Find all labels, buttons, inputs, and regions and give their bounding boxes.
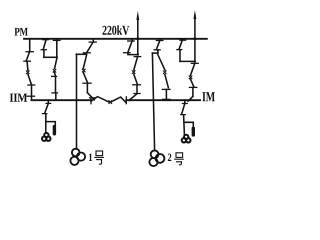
TV2 branch wire to arrester bbox=[184, 122, 193, 126]
main bus section IM bbox=[126, 99, 200, 101]
feeder W1 node junction bbox=[137, 53, 139, 55]
transformer T2 winding 2 bbox=[149, 158, 157, 166]
feeder W2 wire down bbox=[179, 50, 181, 62]
feeder W2 breaker blade bbox=[191, 64, 195, 76]
T1 landing tick bbox=[90, 97, 96, 99]
feeder W2 wire to node bbox=[180, 60, 195, 62]
T2 bay node tick bbox=[154, 49, 160, 51]
feeder W2 breaker x-mark bbox=[189, 76, 192, 79]
feeder W2 breaker tick bbox=[191, 62, 198, 64]
T2 wire to bus IM bbox=[165, 90, 167, 101]
bay B lower tick bbox=[52, 92, 58, 94]
transformer T2 winding 1 bbox=[151, 150, 159, 158]
T2 feeder wire bbox=[152, 53, 154, 150]
feeder W2 node junction bbox=[194, 60, 196, 62]
transformer T1 winding 1 bbox=[72, 149, 80, 157]
label 2 hao: digit 2 bbox=[168, 154, 171, 161]
bay A bus-side tick bbox=[27, 95, 34, 97]
feeder W2 breaker lower blade bbox=[191, 79, 195, 87]
feeder W1 wire bbox=[136, 85, 138, 94]
arrester F1 body bbox=[53, 125, 56, 136]
TV1 lower tick bbox=[42, 113, 47, 115]
bay B wire to bus IIM bbox=[55, 93, 57, 100]
feeder W1 wire bbox=[137, 16, 139, 55]
bay A lower tick bbox=[24, 60, 31, 62]
voltage transformer TV2 winding 2 bbox=[182, 138, 186, 142]
bay B jog tick at PM bbox=[43, 39, 49, 41]
feeder W1 bypass disconnector stub bbox=[131, 39, 133, 41]
voltage transformer TV2 winding 1 bbox=[184, 135, 188, 139]
label 2 hao: hao glyph bbox=[175, 153, 184, 165]
TV1 disconnector blade bbox=[45, 104, 49, 114]
feeder W1 junction at PM bbox=[136, 37, 139, 40]
feeder W1 bus junction bbox=[129, 99, 131, 101]
feeder W2 junction at PM bbox=[193, 37, 196, 40]
TV1 branch wire to arrester bbox=[46, 122, 56, 125]
label IIM bbox=[10, 94, 27, 102]
T2 bay node wire left bbox=[152, 52, 158, 54]
bay B breaker lower blade bbox=[54, 73, 55, 77]
feeder W2 wire bbox=[194, 15, 196, 61]
TV2 wire down bbox=[183, 115, 186, 135]
bay B jog lower tick bbox=[41, 49, 46, 51]
TV2 lower tick bbox=[181, 114, 186, 116]
bus section link: right tick bbox=[125, 97, 127, 104]
label 220kV bbox=[102, 25, 129, 35]
T1 feeder wire bbox=[76, 54, 78, 149]
transformer T1 bay: stub from PM bbox=[92, 39, 94, 42]
feeder W1 breaker x-mark bbox=[132, 71, 135, 74]
bay B junction bbox=[56, 56, 58, 58]
T1 bay node wire bbox=[77, 53, 87, 55]
TV2 disconnector blade bbox=[182, 104, 185, 115]
bay B jog wire down bbox=[43, 50, 45, 57]
T2 breaker lower blade bbox=[165, 75, 169, 88]
voltage transformer bay TV1: stub from bus IIM bbox=[47, 100, 49, 103]
T1 breaker tick bbox=[83, 82, 91, 84]
transformer T1 winding 2 bbox=[70, 157, 78, 165]
feeder W1 lower tick bbox=[124, 52, 131, 54]
feeder W1 breaker lower blade bbox=[134, 74, 138, 84]
T2 bay node junction bbox=[157, 49, 159, 51]
feeder W2 bypass disconnector stub bbox=[182, 39, 184, 40]
bay A breaker blade bbox=[28, 74, 32, 85]
feeder W2 lower tick bbox=[177, 49, 182, 51]
bay B jog wire right bbox=[44, 56, 57, 58]
T1 breaker x-mark bbox=[82, 69, 85, 72]
feeder W1 wire to node bbox=[128, 53, 138, 55]
feeder W1 breaker tick bbox=[134, 56, 141, 58]
bay A breaker tick bbox=[28, 84, 35, 86]
feeder line W2 arrow bbox=[194, 10, 197, 19]
T1 breaker wire bbox=[86, 83, 88, 92]
bay B breaker tick bbox=[52, 75, 57, 77]
bay B breaker blade bbox=[55, 59, 57, 69]
feeder W1 bypass disconnector blade bbox=[128, 41, 132, 52]
T1 breaker lower blade bbox=[83, 73, 87, 84]
feeder W2 wire bbox=[192, 88, 194, 97]
T1 bay node tick bbox=[83, 52, 90, 54]
bus section link: left tick bbox=[90, 97, 92, 104]
T1 bay node junction bbox=[75, 53, 77, 55]
bay A wire bbox=[26, 62, 29, 71]
bay B jog disconnector blade bbox=[43, 40, 46, 49]
bay A breaker x-mark bbox=[26, 71, 29, 74]
voltage transformer TV1 winding 3 bbox=[46, 137, 50, 141]
bypass bus PM bbox=[24, 38, 207, 40]
transformer T2 bay: stub from PM bbox=[159, 39, 161, 40]
T2 bay node wire down bbox=[157, 50, 159, 53]
voltage transformer TV1 winding 1 bbox=[44, 133, 48, 137]
bay A stub from PM bbox=[29, 39, 31, 52]
bus section link: disconnector blades bbox=[91, 97, 110, 103]
TV2 junction on bus bbox=[184, 99, 186, 101]
feeder W1 breaker lower tick bbox=[133, 84, 141, 86]
voltage transformer bay TV2: stub from bus IM bbox=[184, 100, 186, 103]
TV2 disconnector tick bbox=[182, 103, 187, 105]
T2 bay bypass disconnector blade bbox=[156, 41, 159, 50]
feeder W2 breaker lower tick bbox=[189, 86, 196, 88]
bus section link: second blade bbox=[111, 97, 126, 102]
feeder W2 bypass disconnector tick bbox=[180, 39, 186, 41]
T1 landing blade to bus IIM bbox=[87, 93, 94, 100]
main bus section IIM bbox=[32, 99, 92, 101]
voltage transformer TV1 winding 2 bbox=[42, 137, 46, 141]
feeder W1 landing tick bbox=[134, 93, 140, 95]
label IM bbox=[202, 92, 215, 101]
bay B breaker x-mark bbox=[53, 69, 56, 72]
T2 bay disconnector tick bbox=[156, 40, 163, 42]
bay B stub tick bbox=[54, 39, 61, 41]
feeder W1 breaker blade bbox=[134, 57, 138, 70]
label 1 hao: digit 1 bbox=[89, 154, 92, 161]
TV1 wire down bbox=[45, 114, 47, 133]
feeder line W1 arrow bbox=[136, 11, 139, 20]
TV1 disconnector tick bbox=[46, 102, 51, 104]
bay A disconnector tick bbox=[26, 51, 33, 53]
feeder W2 bypass disconnector blade bbox=[179, 41, 182, 50]
T2 breaker tick bbox=[162, 88, 170, 90]
feeder W1 bypass disconnector tick bbox=[128, 40, 135, 42]
label 1 hao: hao glyph bbox=[95, 151, 104, 164]
TV1 junction on bus bbox=[47, 99, 49, 101]
bay B wire bbox=[55, 77, 57, 93]
feeder W2 landing blade to bus IM bbox=[188, 96, 193, 101]
T2 breaker x-mark bbox=[163, 71, 166, 74]
voltage transformer TV2 winding 3 bbox=[186, 138, 190, 142]
transformer T2 winding 3 bbox=[156, 154, 165, 163]
T1 bay bypass disconnector blade bbox=[87, 42, 93, 52]
T2 bus-side tick bbox=[163, 98, 170, 100]
arrester F2 body bbox=[192, 127, 195, 137]
transformer T1 winding 3 bbox=[77, 153, 85, 161]
bay B stub from PM bbox=[56, 39, 58, 58]
bus section link: contact x-mark bbox=[109, 101, 112, 104]
T1 bay disconnector tick bbox=[89, 41, 96, 43]
T1 breaker blade bbox=[83, 55, 86, 68]
bay A disconnector blade bbox=[26, 52, 29, 61]
label PM bbox=[14, 28, 27, 36]
feeder W1 landing blade to bus IM bbox=[130, 94, 137, 100]
T2 breaker blade bbox=[158, 55, 165, 70]
bay A wire to bus IIM bbox=[31, 85, 33, 100]
